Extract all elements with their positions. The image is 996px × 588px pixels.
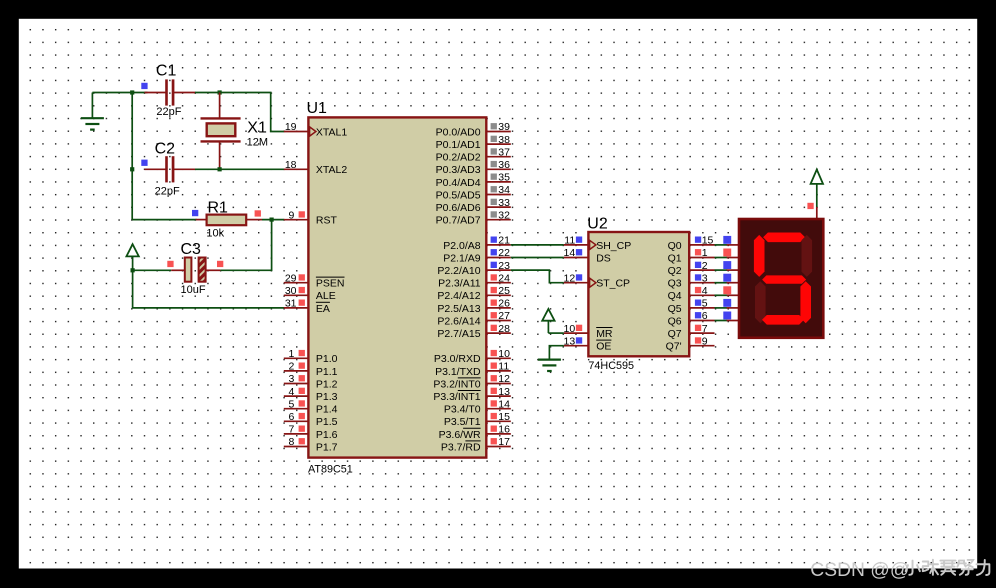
ground symbol top-left — [81, 118, 104, 129]
segment b (off) — [802, 235, 813, 277]
pin 19 stub U1 XTAL1 — [284, 131, 309, 133]
pin 22 stub U1 P2.1/A9 — [486, 257, 511, 259]
overline INT0 — [458, 377, 481, 379]
wire state square display segment a — [723, 236, 731, 244]
pin state square U2 pin 14 — [576, 249, 582, 255]
display U3 body (7-seg) — [739, 219, 823, 338]
segment e (off) — [755, 281, 766, 323]
pin stub display segment g — [727, 320, 739, 322]
svg-text:Q7: Q7 — [668, 328, 682, 340]
svg-text:X1: X1 — [247, 119, 267, 136]
pin state square U2 pin 15 — [695, 237, 701, 243]
pin state square U1 pin 1 — [299, 350, 305, 356]
svg-text:P1.1: P1.1 — [316, 366, 338, 378]
pin state square U2 pin 6 — [695, 312, 701, 318]
pin state square U1 pin 33 — [491, 199, 497, 205]
pin 17 stub U1 P3.7/RD — [486, 446, 511, 448]
svg-text:1: 1 — [702, 247, 708, 259]
svg-text:P1.2: P1.2 — [316, 378, 338, 390]
pin state square U2 pin 12 — [576, 274, 582, 280]
probe square C1 left pin (blue) — [141, 83, 147, 89]
crystal X1 — [201, 118, 241, 141]
pin 13 stub U1 P3.3/INT1 — [486, 395, 511, 397]
pin state square U1 pin 2 — [299, 363, 305, 369]
svg-text:RST: RST — [316, 215, 338, 227]
pin state square U1 pin 37 — [491, 148, 497, 154]
pin state square U2 pin 9 — [695, 337, 701, 343]
probe square C3 right pin (red) — [217, 261, 223, 267]
pin stub display segment c — [727, 269, 739, 271]
svg-text:P3.4/T0: P3.4/T0 — [444, 404, 481, 416]
pin state square U1 pin 26 — [491, 300, 497, 306]
pin state square U2 pin 7 — [695, 325, 701, 331]
capacitor C3 (electrolytic) — [185, 258, 206, 282]
svg-text:Q7': Q7' — [666, 341, 682, 353]
pin 11 stub U1 P3.1/TXD — [486, 370, 511, 372]
wire state square display segment b — [723, 249, 731, 257]
svg-text:36: 36 — [498, 159, 510, 171]
pin state square U1 pin 7 — [299, 426, 305, 432]
svg-text:P1.5: P1.5 — [316, 416, 338, 428]
op U1 body AT89C51 — [308, 117, 486, 457]
svg-text:39: 39 — [498, 121, 510, 133]
pin stub display anode — [816, 207, 818, 220]
svg-text:U1: U1 — [307, 100, 328, 117]
svg-text:3: 3 — [702, 272, 708, 284]
pin 12 stub U1 P3.2/INT0 — [486, 383, 511, 385]
pin state square U1 pin 36 — [491, 161, 497, 167]
svg-text:C1: C1 — [156, 63, 177, 80]
watermark char xiao — [906, 561, 920, 575]
wire Q0 to display pin 0 — [715, 244, 728, 246]
pin 26 stub U1 P2.5/A13 — [486, 307, 511, 309]
junction X1 top at C1 net — [218, 90, 222, 94]
svg-text:P3.5/T1: P3.5/T1 — [444, 416, 481, 428]
svg-text:P2.7/A15: P2.7/A15 — [437, 328, 480, 340]
segment f (lit) — [754, 235, 765, 277]
pin state square U1 pin 24 — [491, 274, 497, 280]
svg-text:P2.4/A12: P2.4/A12 — [437, 290, 480, 302]
pin 6 stub U2 Q6 — [689, 320, 714, 322]
overline EA — [316, 301, 330, 303]
pin state square U1 pin 11 — [491, 363, 497, 369]
wire RST node down to C3 right net — [220, 220, 271, 271]
pin 16 stub U1 P3.6/WR — [486, 433, 511, 435]
overline OE — [596, 339, 611, 341]
svg-text:P1.4: P1.4 — [316, 404, 338, 416]
wire state square display segment g — [723, 312, 731, 320]
capacitor C2 — [165, 156, 174, 182]
pin state square U1 pin 25 — [491, 287, 497, 293]
pin 37 stub U1 P0.2/AD2 — [486, 156, 511, 158]
svg-text:35: 35 — [498, 172, 510, 184]
pin 1 stub U1 P1.0 — [284, 357, 309, 359]
svg-text:38: 38 — [498, 134, 510, 146]
pin state square U1 pin 13 — [491, 388, 497, 394]
pin state square U1 pin 23 — [491, 262, 497, 268]
pin 27 stub U1 P2.6/A14 — [486, 320, 511, 322]
pin state square U2 pin 13 — [576, 337, 582, 343]
svg-text:29: 29 — [285, 272, 297, 284]
pin state square U1 pin 21 — [491, 237, 497, 243]
svg-text:P2.3/A11: P2.3/A11 — [438, 278, 481, 290]
svg-text:P3.1/TXD: P3.1/TXD — [435, 366, 481, 378]
svg-text:C3: C3 — [181, 241, 202, 258]
wire MR arrow to MR pin — [548, 332, 563, 334]
overline INT1 — [458, 390, 481, 392]
svg-text:P3.2/INT0: P3.2/INT0 — [433, 378, 480, 390]
svg-text:P0.4/AD4: P0.4/AD4 — [436, 177, 481, 189]
pin 3 stub U1 P1.2 — [284, 383, 309, 385]
pin 31 stub U1 EA — [284, 307, 309, 309]
junction C3 left node — [131, 268, 135, 272]
svg-text:12: 12 — [498, 373, 510, 385]
wire P2.0 to SH_CP — [511, 244, 564, 246]
svg-text:4: 4 — [702, 285, 708, 297]
pin lead R1 left — [196, 219, 207, 221]
pin stub display segment e — [727, 294, 739, 296]
pin 9 stub U2 Q7' — [689, 345, 714, 347]
svg-text:2: 2 — [288, 361, 294, 373]
pin state square U1 pin 27 — [491, 312, 497, 318]
wire C2 junction to R1 — [132, 219, 196, 221]
svg-text:U2: U2 — [587, 216, 608, 233]
pin lead C1 left — [145, 92, 166, 94]
wire state square display segment f — [723, 299, 731, 307]
svg-text:10uF: 10uF — [181, 284, 206, 296]
svg-text:22pF: 22pF — [155, 185, 180, 197]
pin 6 stub U1 P1.5 — [284, 420, 309, 422]
pin state square U1 pin 4 — [299, 388, 305, 394]
wire vertical C1-C2-R1 left bus — [131, 93, 133, 220]
svg-text:P0.0/AD0: P0.0/AD0 — [436, 126, 481, 138]
pin 28 stub U1 P2.7/A15 — [486, 332, 511, 334]
pin state square U1 pin 3 — [299, 375, 305, 381]
svg-text:P2.1/A9: P2.1/A9 — [443, 252, 481, 264]
overline RD — [465, 440, 480, 442]
svg-text:PSEN: PSEN — [316, 278, 345, 290]
watermark char yao — [940, 561, 955, 575]
pin state square U2 pin 4 — [695, 287, 701, 293]
svg-text:P2.2/A10: P2.2/A10 — [437, 265, 480, 277]
svg-text:21: 21 — [498, 235, 510, 247]
pin state square U1 pin 12 — [491, 375, 497, 381]
pin stub display segment f — [727, 307, 739, 309]
svg-text:28: 28 — [498, 323, 510, 335]
pin 32 stub U1 P0.7/AD7 — [486, 219, 511, 221]
pin state square U1 pin 9 — [299, 211, 305, 217]
wire C3 node down to EA pin — [133, 270, 285, 308]
pin 4 stub U2 Q4 — [689, 294, 714, 296]
power arrow VCC at MR — [542, 309, 554, 333]
pin state square U1 pin 38 — [491, 136, 497, 142]
svg-text:P3.0/RXD: P3.0/RXD — [434, 353, 481, 365]
svg-text:15: 15 — [498, 411, 510, 423]
pin state square U1 pin 10 — [491, 350, 497, 356]
svg-text:12: 12 — [564, 272, 576, 284]
svg-text:AT89C51: AT89C51 — [308, 463, 353, 475]
svg-text:P1.0: P1.0 — [316, 353, 338, 365]
pin 10 stub U1 P3.0/RXD — [486, 357, 511, 359]
probe square R1 left pin (blue) — [192, 210, 198, 216]
svg-text:18: 18 — [285, 159, 297, 171]
wire C1 right to XTAL1 corner — [195, 93, 284, 132]
pin state square U1 pin 34 — [491, 186, 497, 192]
pin state square U1 pin 29 — [299, 274, 305, 280]
pin lead C1 right — [174, 92, 196, 94]
svg-text:25: 25 — [498, 285, 510, 297]
svg-text:19: 19 — [285, 121, 297, 133]
wire OE to ground — [549, 346, 563, 359]
svg-text:32: 32 — [498, 209, 510, 221]
pin 39 stub U1 P0.0/AD0 — [486, 131, 511, 133]
svg-text:31: 31 — [285, 298, 297, 310]
wire state square display segment c — [723, 261, 731, 269]
wire Q5 to display pin 5 — [715, 307, 728, 309]
svg-text:9: 9 — [288, 209, 294, 221]
pin state square U1 pin 5 — [299, 400, 305, 406]
pin 25 stub U1 P2.4/A12 — [486, 294, 511, 296]
wire R1 right to RST pin — [262, 219, 284, 221]
svg-text:26: 26 — [498, 298, 510, 310]
pin 13 stub U2 OE — [564, 345, 589, 347]
svg-text:6: 6 — [288, 411, 294, 423]
pin 10 stub U2 MR — [564, 332, 589, 334]
svg-text:8: 8 — [288, 436, 294, 448]
watermark char zhang — [923, 560, 938, 575]
pin 14 stub U2 DS — [564, 257, 589, 259]
pin 33 stub U1 P0.6/AD6 — [486, 206, 511, 208]
svg-text:14: 14 — [564, 247, 576, 259]
pin state square U1 pin 31 — [299, 300, 305, 306]
pin state square U1 pin 28 — [491, 325, 497, 331]
pin stub display segment d — [727, 282, 739, 284]
pin 8 stub U1 P1.7 — [284, 446, 309, 448]
svg-text:Q5: Q5 — [668, 303, 682, 315]
svg-text:7: 7 — [702, 323, 708, 335]
pin state square U1 pin 22 — [491, 249, 497, 255]
pin 11 stub U2 SH_CP — [564, 244, 589, 246]
svg-text:P0.6/AD6: P0.6/AD6 — [436, 202, 481, 214]
pin state square U2 pin 11 — [576, 237, 582, 243]
ground symbol at OE — [538, 360, 561, 371]
svg-text:7: 7 — [288, 424, 294, 436]
svg-text:DS: DS — [596, 252, 611, 264]
watermark char li — [977, 560, 990, 575]
capacitor C1 — [165, 79, 174, 105]
wire state square display segment d — [723, 274, 731, 282]
svg-text:4: 4 — [288, 386, 294, 398]
svg-text:Q4: Q4 — [668, 290, 682, 302]
pin state square U1 pin 30 — [299, 287, 305, 293]
segment g (lit) — [762, 275, 806, 283]
svg-text:P1.7: P1.7 — [316, 441, 338, 453]
pin 2 stub U2 Q2 — [689, 269, 714, 271]
svg-text:14: 14 — [498, 398, 510, 410]
svg-text:24: 24 — [498, 272, 510, 284]
junction node XTAL1 net at C1 left — [130, 90, 134, 94]
resistor R1 — [207, 215, 247, 226]
svg-text:23: 23 — [498, 260, 510, 272]
svg-text:P1.6: P1.6 — [316, 429, 338, 441]
pin 5 stub U2 Q5 — [689, 307, 714, 309]
junction X1 bottom at C2 net — [218, 167, 222, 171]
segment c (lit) — [800, 281, 811, 323]
svg-text:10: 10 — [564, 323, 576, 335]
pin lead X1 top — [219, 93, 221, 118]
svg-text:P1.3: P1.3 — [316, 391, 338, 403]
wire state square display segment e — [723, 286, 731, 294]
pin lead C3 right — [206, 269, 221, 271]
svg-text:34: 34 — [498, 184, 510, 196]
pin lead X1 bottom — [219, 142, 221, 169]
pin state square U2 pin 5 — [695, 300, 701, 306]
svg-text:P3.6/WR: P3.6/WR — [439, 429, 481, 441]
pin 4 stub U1 P1.3 — [284, 395, 309, 397]
svg-text:22pF: 22pF — [156, 106, 181, 118]
pin state square U2 pin 1 — [695, 249, 701, 255]
svg-text:3: 3 — [288, 373, 294, 385]
wire C2 right to XTAL2 pin — [195, 168, 284, 170]
overline MR — [596, 327, 612, 329]
wire ground stem — [91, 93, 93, 118]
pin 23 stub U1 P2.2/A10 — [486, 269, 511, 271]
wire Q3 to display pin 3 — [715, 282, 728, 284]
wire Q4 to display pin 4 — [715, 294, 728, 296]
pin 9 stub U1 RST — [284, 219, 309, 221]
svg-text:P0.2/AD2: P0.2/AD2 — [436, 152, 481, 164]
svg-text:15: 15 — [702, 235, 714, 247]
wire C3 left node to C3 — [133, 269, 172, 271]
pin stub display segment b — [727, 257, 739, 259]
svg-text:12M: 12M — [247, 137, 268, 149]
svg-text:Q6: Q6 — [668, 315, 682, 327]
pin lead R1 right — [246, 219, 262, 221]
wire state square display anode (red) — [807, 203, 813, 209]
pin state square U2 pin 3 — [695, 274, 701, 280]
junction node XTAL2 net at C2 left — [130, 167, 134, 171]
svg-text:1: 1 — [288, 348, 294, 360]
svg-text:P2.5/A13: P2.5/A13 — [437, 303, 480, 315]
svg-text:P0.5/AD5: P0.5/AD5 — [436, 189, 481, 201]
svg-text:CSDN @@: CSDN @@ — [810, 560, 909, 581]
probe square R1 right pin (red) — [255, 210, 261, 216]
svg-text:EA: EA — [316, 303, 330, 315]
svg-text:6: 6 — [702, 310, 708, 322]
svg-text:11: 11 — [498, 361, 509, 373]
pin 7 stub U1 P1.6 — [284, 433, 309, 435]
svg-text:C2: C2 — [155, 140, 176, 157]
clock mark XTAL1 — [310, 127, 316, 136]
pin 36 stub U1 P0.3/AD3 — [486, 168, 511, 170]
svg-text:P0.3/AD3: P0.3/AD3 — [436, 164, 481, 176]
svg-text:XTAL1: XTAL1 — [316, 126, 347, 138]
svg-text:Q2: Q2 — [668, 265, 682, 277]
pin 34 stub U1 P0.5/AD5 — [486, 194, 511, 196]
pin state square U1 pin 16 — [491, 426, 497, 432]
pin 15 stub U1 P3.5/T1 — [486, 420, 511, 422]
svg-text:33: 33 — [498, 197, 510, 209]
pin lead C2 left — [145, 168, 166, 170]
power arrow VCC at display anode — [811, 170, 823, 208]
svg-text:17: 17 — [498, 436, 510, 448]
svg-text:Q1: Q1 — [668, 252, 682, 264]
svg-text:10k: 10k — [206, 227, 224, 239]
svg-text:16: 16 — [498, 424, 510, 436]
svg-text:2: 2 — [702, 260, 708, 272]
pin 35 stub U1 P0.4/AD4 — [486, 181, 511, 183]
svg-text:P3.7/RD: P3.7/RD — [441, 441, 481, 453]
pin 3 stub U2 Q3 — [689, 282, 714, 284]
svg-text:10: 10 — [498, 348, 510, 360]
wire P2.1 to DS — [511, 257, 564, 259]
svg-text:13: 13 — [564, 335, 576, 347]
pin lead C2 right — [174, 168, 196, 170]
svg-text:P2.6/A14: P2.6/A14 — [437, 315, 480, 327]
pin state square U1 pin 15 — [491, 413, 497, 419]
svg-text:27: 27 — [498, 310, 510, 322]
svg-text:22: 22 — [498, 247, 510, 259]
svg-text:5: 5 — [702, 298, 708, 310]
op U2 body 74HC595 — [588, 232, 689, 356]
pin lead C3 left — [171, 269, 184, 271]
svg-text:P3.3/INT1: P3.3/INT1 — [433, 391, 480, 403]
pin 15 stub U2 Q0 — [689, 244, 714, 246]
svg-text:P0.7/AD7: P0.7/AD7 — [436, 215, 481, 227]
probe square C3 left pin (red) — [167, 261, 173, 267]
svg-text:OE: OE — [596, 341, 611, 353]
clock mark ST_CP — [590, 278, 596, 287]
wire Q1 to display pin 1 — [715, 257, 728, 259]
probe square C2 left pin (blue) — [141, 160, 147, 166]
wire ground to C1 — [92, 92, 147, 94]
pin state square U1 pin 8 — [299, 438, 305, 444]
pin stub display segment a — [727, 244, 739, 246]
pin 38 stub U1 P0.1/AD1 — [486, 143, 511, 145]
pin state square U1 pin 32 — [491, 211, 497, 217]
pin 24 stub U1 P2.3/A11 — [486, 282, 511, 284]
svg-text:5: 5 — [288, 398, 294, 410]
pin state square U1 pin 14 — [491, 400, 497, 406]
segment d (lit) — [762, 315, 804, 325]
pin 1 stub U2 Q1 — [689, 257, 714, 259]
pin 12 stub U2 ST_CP — [564, 282, 589, 284]
clock mark SH_CP — [590, 240, 596, 249]
segment a (lit) — [763, 233, 805, 243]
svg-text:37: 37 — [498, 146, 510, 158]
pin 2 stub U1 P1.1 — [284, 370, 309, 372]
svg-text:30: 30 — [285, 285, 297, 297]
pin 30 stub U1 ALE — [284, 294, 309, 296]
wire Q6 to display pin 6 — [715, 320, 728, 322]
overline WR — [463, 427, 481, 429]
pin 29 stub U1 PSEN — [284, 282, 309, 284]
svg-text:11: 11 — [564, 235, 575, 247]
svg-text:XTAL2: XTAL2 — [316, 164, 347, 176]
pin 14 stub U1 P3.4/T0 — [486, 408, 511, 410]
watermark char nu — [957, 560, 973, 575]
svg-text:74HC595: 74HC595 — [588, 360, 634, 372]
pin state square U2 pin 10 — [576, 325, 582, 331]
pin state square U1 pin 17 — [491, 438, 497, 444]
svg-text:9: 9 — [702, 335, 708, 347]
svg-text:ALE: ALE — [316, 290, 336, 302]
pin 18 stub U1 XTAL2 — [284, 168, 309, 170]
wire P2.2 to ST_CP — [511, 270, 564, 283]
svg-text:Q0: Q0 — [668, 240, 682, 252]
svg-text:ST_CP: ST_CP — [596, 278, 630, 290]
pin 5 stub U1 P1.4 — [284, 408, 309, 410]
